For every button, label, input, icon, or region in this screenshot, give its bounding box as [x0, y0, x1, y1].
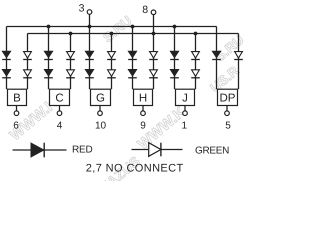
segment box C	[50, 89, 70, 105]
wire: red branch segment C	[48, 27, 50, 90]
wire: green common anode rail (pin 8 net)	[28, 33, 239, 35]
junction: green rail / segment C	[69, 32, 73, 36]
segment box DP	[218, 89, 238, 105]
svg-text:6: 6	[13, 120, 19, 131]
svg-text:10: 10	[95, 120, 107, 131]
red LED segment B upper	[2, 51, 11, 58]
pin terminal 6	[14, 111, 19, 116]
wire: green branch segment B	[27, 34, 29, 90]
wire: box B to pin	[16, 106, 18, 112]
junction: red rail / segment J	[173, 25, 177, 29]
red LED segment DP upper	[212, 51, 221, 58]
wire: green branch segment C	[70, 34, 72, 90]
wire: box C to pin	[59, 106, 61, 112]
wire: green branch segment DP	[238, 34, 240, 90]
red LED segment G upper	[85, 51, 94, 58]
wire: red common anode rail (pin 3 net)	[7, 26, 217, 28]
junction: red rail / segment H	[131, 25, 135, 29]
svg-text:2,7 NO CONNECT: 2,7 NO CONNECT	[86, 163, 184, 175]
wire: box J to pin	[184, 106, 186, 112]
svg-text:S.RU: S.RU	[100, 13, 134, 45]
junction: red rail / segment G	[88, 25, 92, 29]
wire: green branch segment G	[111, 34, 113, 90]
red LED segment H upper	[128, 51, 137, 58]
svg-text:9: 9	[140, 120, 146, 131]
green LED segment B lower	[24, 70, 32, 76]
green LED segment H lower	[150, 70, 158, 76]
junction: green rail / segment J	[194, 32, 198, 36]
wire: pin 3 to red rail	[89, 14, 91, 26]
wire: red branch segment B	[6, 27, 8, 90]
green LED segment J upper	[192, 52, 200, 58]
svg-text:J: J	[182, 92, 188, 104]
green LED segment J lower	[192, 70, 200, 76]
green LED segment DP upper	[235, 52, 243, 58]
red LED segment C lower	[44, 69, 53, 76]
red LED segment J upper	[170, 51, 179, 58]
red LED segment B lower	[2, 69, 11, 76]
wire: red branch segment J	[174, 27, 176, 90]
wire: red branch segment H	[132, 27, 134, 90]
pin 3 terminal	[87, 10, 92, 15]
wire: pin 8 to green rail	[153, 15, 155, 34]
pin terminal 4	[57, 111, 62, 116]
legend red diode symbol	[13, 143, 67, 158]
green LED segment C lower	[67, 70, 75, 76]
junction: red rail / segment C	[47, 25, 51, 29]
svg-text:DP: DP	[220, 92, 236, 104]
green LED segment G lower	[108, 70, 116, 76]
segment box G	[91, 89, 111, 105]
red LED segment H lower	[128, 69, 137, 76]
svg-text:8: 8	[142, 4, 148, 16]
svg-text:5: 5	[225, 120, 231, 131]
green LED segment G upper	[108, 52, 116, 58]
green LED segment H upper	[150, 52, 158, 58]
svg-text:1: 1	[182, 120, 188, 131]
pin terminal 10	[98, 111, 103, 116]
segment box J	[176, 89, 195, 105]
pin terminal 1	[183, 111, 188, 116]
wire: green branch segment J	[195, 34, 197, 90]
wire: red branch segment DP	[216, 27, 218, 90]
wire: box G to pin	[99, 106, 101, 112]
red LED segment J lower	[170, 69, 179, 76]
svg-text:4: 4	[57, 120, 63, 131]
pin terminal 9	[141, 111, 146, 116]
green LED segment B upper	[24, 52, 32, 58]
wire: box DP to pin	[226, 106, 228, 112]
junction: green rail / segment H	[152, 32, 156, 36]
segment box B	[8, 89, 27, 105]
green LED segment C upper	[67, 52, 75, 58]
junction: green rail / segment G	[110, 32, 114, 36]
pin 8 terminal	[151, 10, 156, 15]
svg-text:G: G	[96, 92, 105, 104]
red LED segment C upper	[44, 51, 53, 58]
svg-text:C: C	[55, 92, 63, 104]
pin terminal 5	[225, 111, 230, 116]
wire: red branch segment G	[89, 27, 91, 90]
svg-text:GREEN: GREEN	[195, 146, 229, 157]
red LED segment G lower	[85, 69, 94, 76]
svg-text:H: H	[139, 92, 147, 104]
svg-text:RED: RED	[72, 145, 93, 156]
svg-text:B: B	[13, 92, 21, 104]
legend green diode symbol	[132, 143, 183, 157]
wire: box H to pin	[142, 106, 144, 112]
svg-text:3: 3	[79, 3, 85, 15]
segment box H	[134, 89, 153, 105]
wire: green branch segment H	[153, 34, 155, 90]
